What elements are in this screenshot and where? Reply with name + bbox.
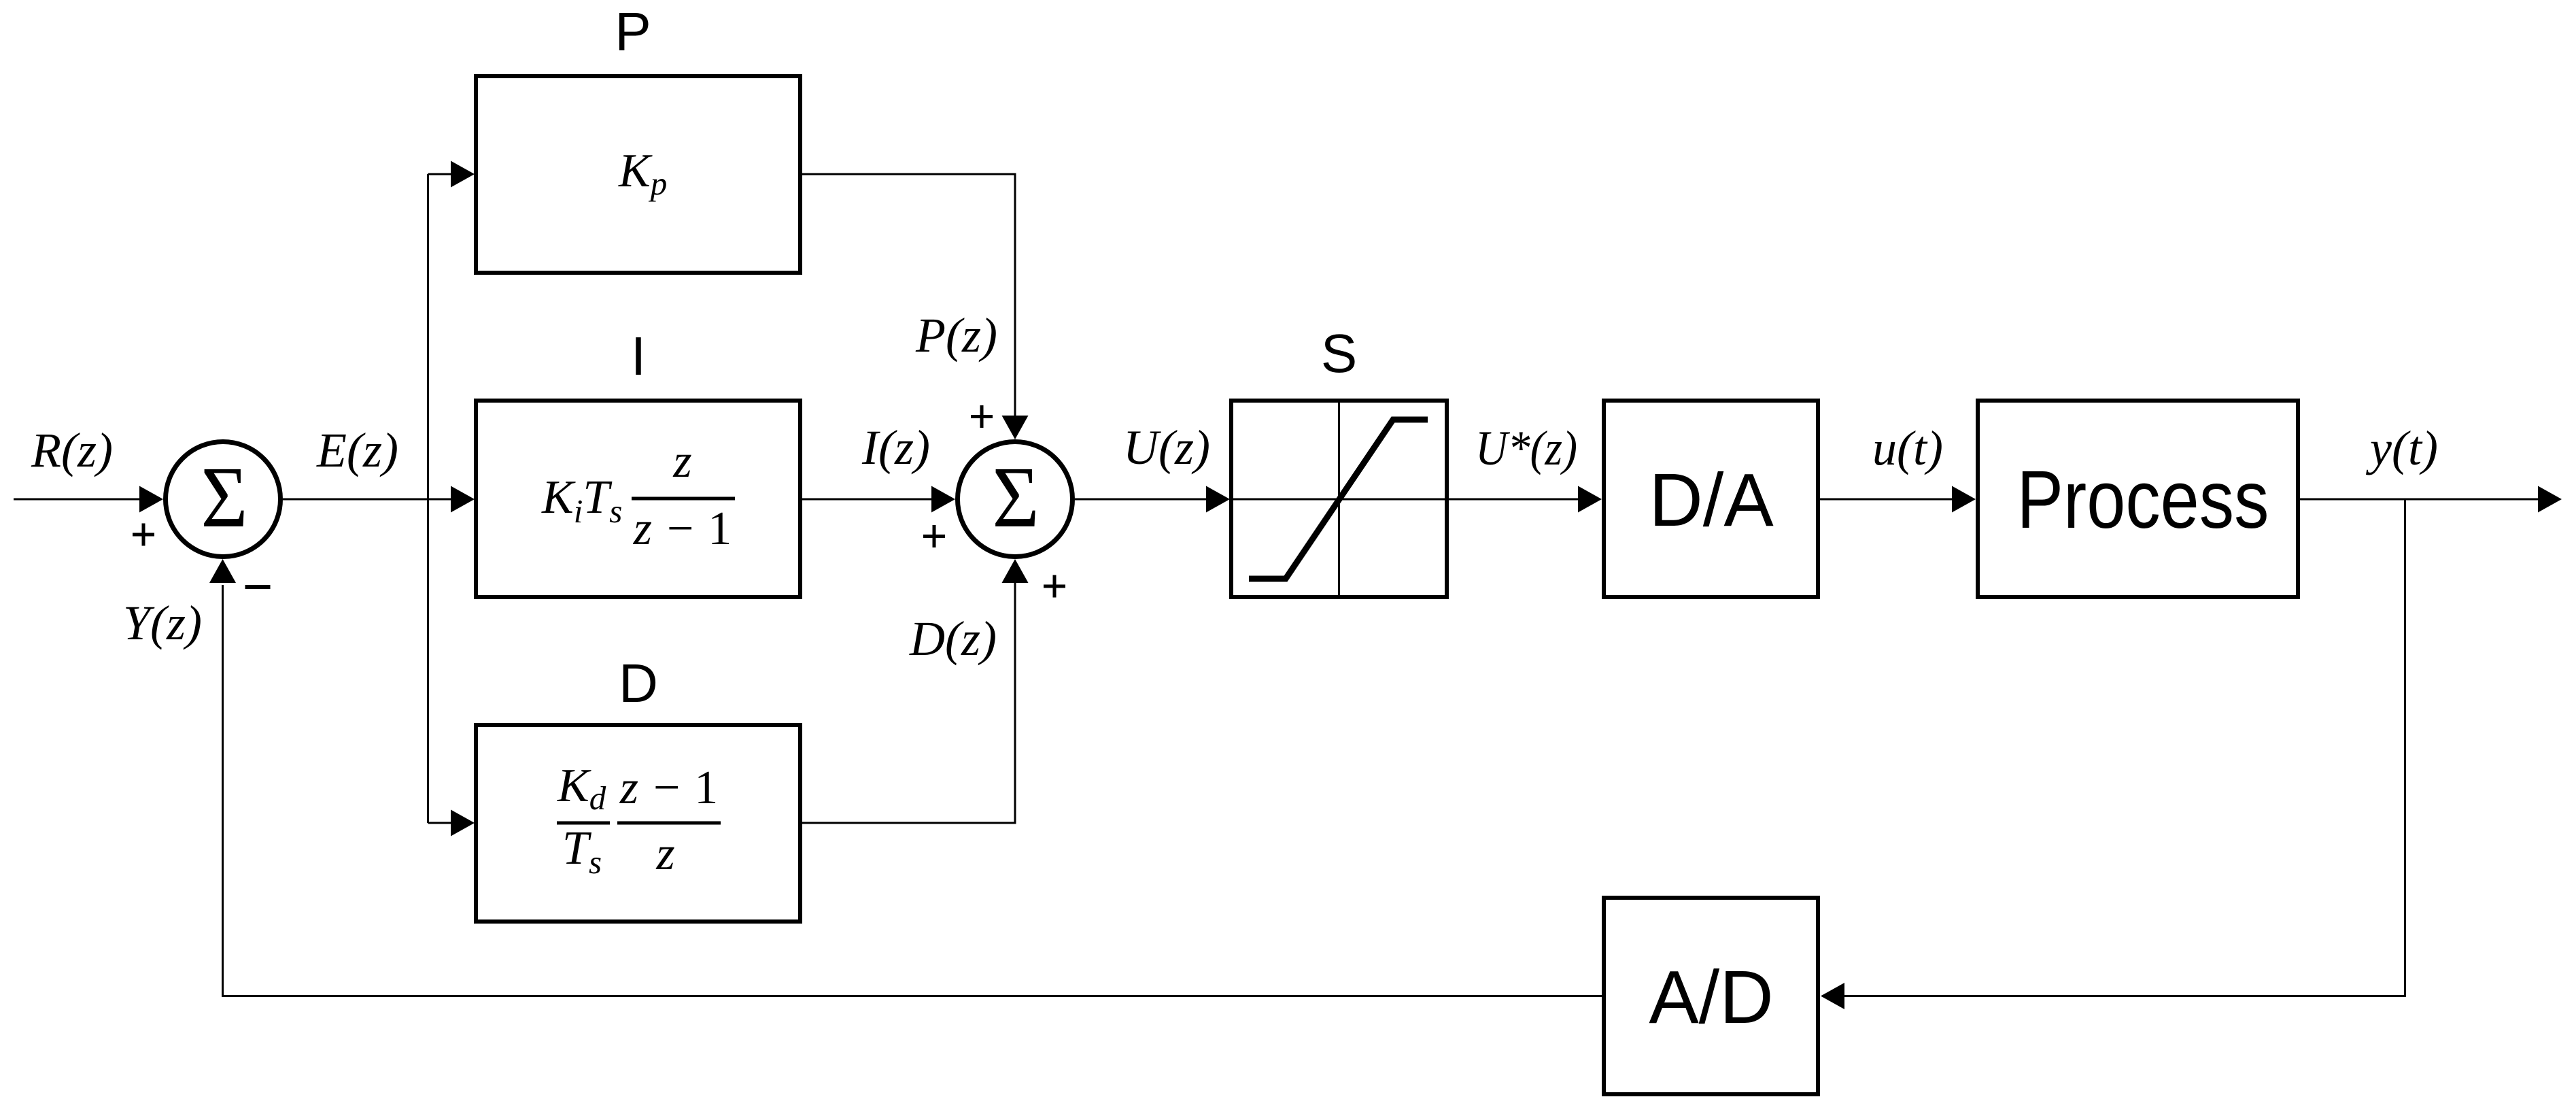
block S saturation <box>1231 401 1447 597</box>
arrowhead into P block <box>451 161 475 188</box>
plus sign at U2 top input <box>971 405 993 428</box>
svg-text:y(t): y(t) <box>2365 421 2438 475</box>
block P <box>476 76 800 273</box>
wire branch into P block <box>428 173 453 175</box>
wire I output to U2 <box>800 499 933 501</box>
svg-text:I: I <box>631 326 646 386</box>
wire E branch vertical <box>427 174 429 823</box>
block A/D <box>1604 898 1818 1094</box>
arrowhead into I block <box>451 486 475 513</box>
arrowhead into Process block <box>1952 486 1976 513</box>
arrowhead up into U1 bottom <box>209 559 236 583</box>
wire R(z) input line <box>14 499 141 501</box>
wire feedback branch down <box>1844 499 2405 996</box>
svg-text:U(z): U(z) <box>1123 420 1210 475</box>
svg-text:A/D: A/D <box>1649 956 1773 1039</box>
arrowhead into D block <box>451 810 475 837</box>
arrowhead into summing junction U1 <box>139 486 163 513</box>
wire U*(z) from S to D/A <box>1449 499 1579 501</box>
svg-text:z − 1: z − 1 <box>633 503 732 555</box>
wire u(t) from D/A to Process <box>1820 499 1953 501</box>
svg-text:Y(z): Y(z) <box>123 596 202 650</box>
svg-text:z − 1: z − 1 <box>619 762 718 814</box>
svg-text:Process: Process <box>2017 453 2269 545</box>
svg-text:S: S <box>1321 323 1357 384</box>
svg-text:D/A: D/A <box>1649 458 1774 542</box>
arrowhead into A/D block <box>1821 983 1844 1009</box>
wire D output to summing junction U2 <box>800 583 1015 823</box>
svg-text:u(t): u(t) <box>1872 421 1943 475</box>
wire E(z) from U1 to I block <box>283 499 452 501</box>
wire U(z) from U2 to S block <box>1075 499 1207 501</box>
plus sign at U2 left input <box>923 525 945 547</box>
wire branch into D block <box>428 822 453 824</box>
arrowhead into U2 left <box>931 486 955 513</box>
summing junction U1 <box>166 442 281 557</box>
S inner axis horizontal <box>1233 499 1445 501</box>
svg-text:R(z): R(z) <box>31 423 113 477</box>
svg-text:z: z <box>655 828 674 880</box>
output arrowhead <box>2538 486 2562 513</box>
arrowhead into S block <box>1206 486 1230 513</box>
minus sign at summing junction U1 feedback input <box>245 585 271 589</box>
arrowhead up into U2 bottom <box>1002 559 1029 583</box>
svg-text:Σ: Σ <box>993 449 1040 545</box>
plus sign at summing junction U1 input <box>133 524 154 546</box>
svg-text:z: z <box>672 435 691 488</box>
block D <box>476 725 800 922</box>
svg-text:P: P <box>615 1 651 62</box>
summing junction U2 <box>958 442 1073 557</box>
svg-text:P(z): P(z) <box>915 308 997 362</box>
svg-text:E(z): E(z) <box>316 423 398 477</box>
block I <box>476 401 800 597</box>
svg-text:Σ: Σ <box>201 449 248 545</box>
arrowhead down into U2 <box>1002 416 1029 439</box>
svg-text:U*(z): U*(z) <box>1475 421 1577 475</box>
svg-text:D: D <box>619 653 658 713</box>
S saturation curve <box>1249 420 1428 579</box>
arrowhead into D/A block <box>1578 486 1602 513</box>
block Process <box>1978 401 2298 597</box>
wire feedback from A/D to U1 <box>223 585 1602 996</box>
plus sign at U2 bottom input <box>1044 575 1065 598</box>
S inner axis vertical <box>1338 403 1340 595</box>
wire P output to summing junction U2 <box>800 174 1015 416</box>
wire y(t) output <box>2300 499 2539 501</box>
svg-text:I(z): I(z) <box>861 420 930 475</box>
svg-text:D(z): D(z) <box>909 611 997 666</box>
block D/A <box>1604 401 1818 597</box>
